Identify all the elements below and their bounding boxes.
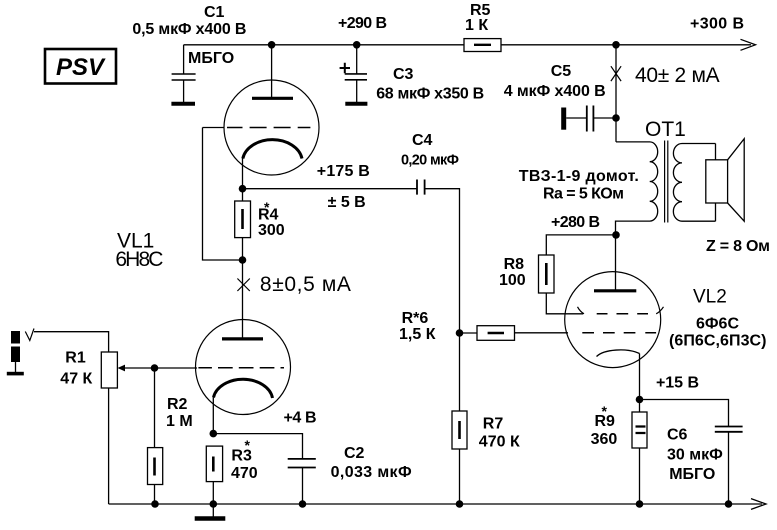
- svg-text:Z = 8 Ом: Z = 8 Ом: [706, 238, 770, 255]
- svg-text:8±0,5 мА: 8±0,5 мА: [260, 273, 351, 296]
- svg-text:+15 В: +15 В: [656, 375, 699, 392]
- svg-text:МБГО: МБГО: [669, 466, 715, 483]
- svg-text:С4: С4: [412, 132, 433, 149]
- svg-text:1,5 К: 1,5 К: [399, 326, 436, 343]
- svg-text:ТВЗ-1-9 домот.: ТВЗ-1-9 домот.: [519, 168, 639, 185]
- svg-text:+300 В: +300 В: [690, 16, 744, 33]
- svg-text:4 мкФ х400 В: 4 мкФ х400 В: [504, 83, 606, 100]
- svg-text:*: *: [245, 437, 251, 453]
- svg-text:100: 100: [499, 272, 526, 289]
- svg-text:0,033 мкФ: 0,033 мкФ: [331, 464, 412, 481]
- svg-text:300: 300: [258, 222, 285, 239]
- svg-text:*: *: [602, 403, 608, 419]
- svg-text:R8: R8: [504, 256, 525, 273]
- svg-text:*: *: [264, 199, 270, 215]
- svg-text:+290 В: +290 В: [338, 15, 387, 32]
- svg-text:47 К: 47 К: [60, 370, 92, 387]
- svg-text:+175 В: +175 В: [317, 163, 370, 180]
- svg-text:ОТ1: ОТ1: [645, 118, 686, 141]
- svg-text:С5: С5: [551, 63, 572, 80]
- svg-text:6Ф6С: 6Ф6С: [696, 316, 739, 333]
- svg-text:VL2: VL2: [693, 287, 727, 308]
- svg-text:40± 2 мА: 40± 2 мА: [635, 64, 720, 87]
- svg-text:R2: R2: [167, 396, 188, 413]
- svg-text:0,20 мкФ: 0,20 мкФ: [401, 153, 459, 169]
- svg-text:1 К: 1 К: [465, 17, 488, 34]
- svg-text:С2: С2: [344, 445, 365, 462]
- svg-text:МБГО: МБГО: [188, 50, 234, 67]
- svg-text:С1: С1: [204, 4, 225, 21]
- svg-text:PSV: PSV: [56, 54, 106, 81]
- svg-text:1 М: 1 М: [166, 413, 193, 430]
- svg-text:± 5 В: ± 5 В: [328, 194, 366, 211]
- svg-text:30 мкФ: 30 мкФ: [667, 447, 723, 464]
- svg-text:360: 360: [591, 431, 618, 448]
- svg-text:Ra = 5 КОм: Ra = 5 КОм: [543, 186, 624, 203]
- svg-text:R7: R7: [483, 415, 504, 432]
- svg-text:470 К: 470 К: [479, 434, 520, 451]
- svg-text:+4 В: +4 В: [284, 410, 317, 427]
- svg-text:68 мкФ х350 В: 68 мкФ х350 В: [376, 86, 484, 103]
- svg-text:470: 470: [231, 465, 258, 482]
- svg-text:0,5 мкФ х400 В: 0,5 мкФ х400 В: [132, 21, 246, 38]
- svg-text:(6П6С,6П3С): (6П6С,6П3С): [669, 332, 767, 349]
- svg-text:6Н8С: 6Н8С: [115, 248, 163, 271]
- svg-text:С6: С6: [667, 427, 688, 444]
- svg-text:R1: R1: [65, 350, 86, 367]
- svg-text:С3: С3: [393, 66, 414, 83]
- svg-text:+280 В: +280 В: [551, 214, 600, 231]
- svg-text:R*6: R*6: [402, 310, 429, 327]
